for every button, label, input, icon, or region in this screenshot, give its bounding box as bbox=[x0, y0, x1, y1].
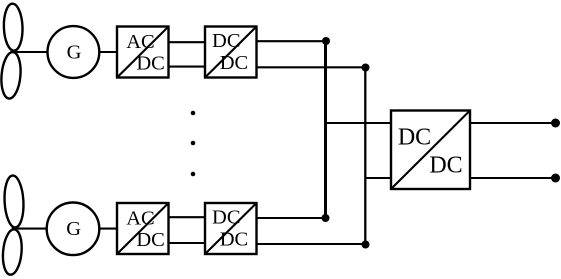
svg-text:AC: AC bbox=[126, 208, 154, 230]
wire: G2 to AC/DC converter U3 bbox=[99, 228, 117, 230]
wire: U2 positive output to bus P bbox=[257, 40, 327, 42]
wire: WT1 hub to generator G1 bbox=[12, 51, 48, 53]
ellipsis dots for additional turbine strings bbox=[191, 111, 196, 116]
wind turbine WT2 blade lower bbox=[1, 228, 23, 275]
wire: U1 to U2 negative bbox=[169, 66, 206, 68]
svg-text:DC: DC bbox=[212, 207, 240, 229]
generator G1 bbox=[48, 26, 100, 78]
converter U3 AC/DC box bbox=[117, 203, 169, 254]
junction dot: U4 negative on bus N bbox=[362, 241, 370, 249]
svg-text:DC: DC bbox=[429, 152, 462, 178]
wire: U4 positive output to bus P bbox=[257, 217, 326, 219]
wind turbine WT2 blade upper bbox=[3, 175, 24, 228]
junction dot: U2 negative on bus N bbox=[362, 64, 370, 72]
svg-text:DC: DC bbox=[136, 53, 164, 75]
wire: U3 to U4 positive bbox=[169, 216, 206, 218]
converter U5 central DC/DC box bbox=[391, 111, 470, 190]
svg-text:AC: AC bbox=[126, 31, 154, 53]
wire: U2 negative output to bus N bbox=[257, 66, 366, 68]
svg-text:DC: DC bbox=[398, 125, 431, 151]
wire: U1 to U2 positive bbox=[169, 41, 206, 43]
terminal dot: output positive bbox=[551, 119, 560, 128]
converter U1 AC/DC box bbox=[117, 27, 169, 78]
wire: U3 to U4 negative bbox=[169, 242, 206, 244]
wind turbine WT1 blade lower bbox=[0, 51, 22, 99]
bus P vertical bbox=[324, 41, 327, 218]
wire: U5 output negative bbox=[470, 177, 553, 179]
converter U4 DC/DC box bbox=[205, 203, 257, 254]
wire: WT2 hub to generator G2 bbox=[12, 228, 47, 230]
terminal dot: output negative bbox=[551, 174, 560, 183]
wire: U4 negative output to bus N bbox=[257, 243, 366, 245]
wire: bus P to central converter U5 input positive bbox=[326, 122, 391, 124]
svg-text:DC: DC bbox=[220, 52, 248, 74]
junction dot: U2 positive on bus P bbox=[322, 37, 330, 45]
junction dot: U4 positive on bus P bbox=[322, 214, 330, 222]
svg-text:DC: DC bbox=[220, 229, 248, 251]
svg-text:G: G bbox=[66, 218, 81, 240]
generator G2 bbox=[47, 203, 100, 256]
svg-text:DC: DC bbox=[136, 229, 164, 251]
bus N vertical bbox=[364, 68, 366, 245]
converter U2 DC/DC box bbox=[205, 27, 257, 78]
wire: G1 to AC/DC converter U1 bbox=[99, 51, 117, 53]
wire: U5 output positive bbox=[470, 122, 553, 124]
svg-text:DC: DC bbox=[212, 30, 240, 52]
wire: bus N to central converter U5 input negative bbox=[366, 177, 392, 179]
wind turbine WT1 blade upper bbox=[3, 3, 23, 51]
svg-text:G: G bbox=[67, 41, 82, 63]
